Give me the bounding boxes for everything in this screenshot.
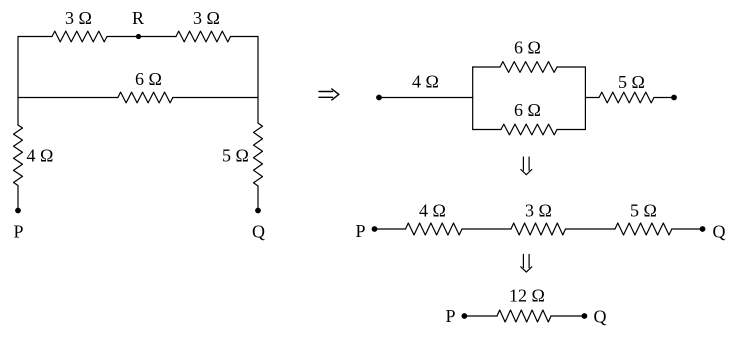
wire row1 box to 5 ohm xyxy=(585,97,599,99)
wire row1 box top-left segment xyxy=(473,66,500,68)
svg-text:5 Ω: 5 Ω xyxy=(630,201,657,221)
resistor 5 ohm (row1) xyxy=(599,92,654,103)
svg-text:3 Ω: 3 Ω xyxy=(193,8,220,28)
resistor 6 ohm (parallel bottom) xyxy=(501,124,557,135)
node terminal dot row1 right xyxy=(671,95,677,101)
svg-text:4 Ω: 4 Ω xyxy=(27,146,54,166)
wire top-left horizontal segment xyxy=(18,36,52,38)
svg-text:R: R xyxy=(132,8,144,28)
resistor 5 ohm (series) xyxy=(615,223,672,235)
wire top middle segment xyxy=(107,36,176,38)
svg-text:3 Ω: 3 Ω xyxy=(65,8,92,28)
wire middle-left segment xyxy=(18,97,118,99)
svg-text:5 Ω: 5 Ω xyxy=(618,72,645,92)
svg-text:6 Ω: 6 Ω xyxy=(135,69,162,89)
node P terminal dot row4 xyxy=(462,313,468,319)
resistor 3 ohm (top left) xyxy=(52,31,107,42)
wire row1 box bottom-right segment xyxy=(557,129,585,131)
node P terminal dot (left circuit) xyxy=(15,208,21,214)
resistor 4 ohm (series) xyxy=(406,223,463,235)
svg-text:P: P xyxy=(445,306,455,326)
node P terminal dot row3 xyxy=(372,226,378,232)
wire top-right horizontal segment xyxy=(231,36,259,38)
resistor 6 ohm (middle) xyxy=(118,92,173,103)
svg-text:6 Ω: 6 Ω xyxy=(514,38,541,58)
wire left vertical xyxy=(17,37,19,126)
resistor 12 ohm xyxy=(497,310,551,322)
wire row4 left lead xyxy=(464,315,497,317)
resistor 4 ohm (left branch) xyxy=(14,125,23,186)
svg-text:Q: Q xyxy=(713,222,726,242)
wire row1 left lead xyxy=(379,97,473,99)
wire middle-right segment xyxy=(173,97,258,99)
wire right vertical xyxy=(257,37,259,124)
svg-text:5 Ω: 5 Ω xyxy=(222,146,249,166)
node Q terminal dot row4 xyxy=(582,313,588,319)
svg-text:4 Ω: 4 Ω xyxy=(412,72,439,92)
node Q terminal dot (left circuit) xyxy=(255,208,261,214)
wire row1 right lead xyxy=(654,97,674,99)
wire right terminal lead xyxy=(257,186,259,210)
svg-text:Q: Q xyxy=(252,222,265,242)
resistor 5 ohm (right branch) xyxy=(254,123,263,186)
svg-text:Q: Q xyxy=(594,307,607,327)
arrow double right (implies) xyxy=(319,89,339,100)
svg-text:12 Ω: 12 Ω xyxy=(509,286,545,306)
resistor 6 ohm (parallel top) xyxy=(500,62,557,73)
arrow double down 1 xyxy=(521,157,532,175)
wire left terminal lead xyxy=(17,186,19,211)
wire row1 box right vertical xyxy=(584,67,586,130)
node Q terminal dot row3 xyxy=(700,226,706,232)
wire row1 box bottom-left segment xyxy=(473,129,501,131)
node R junction dot xyxy=(136,34,141,39)
svg-text:P: P xyxy=(13,222,23,242)
resistor 3 ohm (series) xyxy=(511,223,566,235)
arrow double down 2 xyxy=(521,254,532,272)
svg-text:6 Ω: 6 Ω xyxy=(514,100,541,120)
wire row1 box left vertical xyxy=(472,67,474,130)
wire row3 left lead xyxy=(375,228,406,230)
wire row4 right lead xyxy=(551,315,584,317)
node terminal dot row1 left xyxy=(376,95,382,101)
wire row1 box top-right segment xyxy=(557,66,585,68)
svg-text:3 Ω: 3 Ω xyxy=(525,201,552,221)
svg-text:P: P xyxy=(355,221,365,241)
wire row3 segment a xyxy=(462,228,511,230)
wire row3 segment b xyxy=(566,228,616,230)
resistor 3 ohm (top right) xyxy=(176,31,231,42)
wire row3 right lead xyxy=(672,228,703,230)
svg-text:4 Ω: 4 Ω xyxy=(419,201,446,221)
